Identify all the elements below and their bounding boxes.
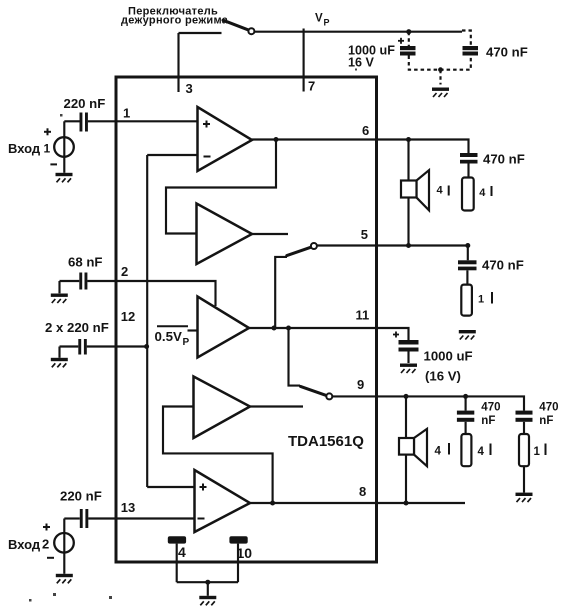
svg-text:220 nF: 220 nF: [60, 489, 102, 504]
svg-text:13: 13: [121, 500, 135, 515]
svg-text:Вход: Вход: [8, 537, 41, 552]
svg-text:P: P: [183, 337, 190, 348]
svg-text:470: 470: [481, 401, 500, 413]
svg-text:0.5V: 0.5V: [155, 329, 182, 344]
svg-text:1: 1: [123, 106, 130, 121]
svg-text:2: 2: [121, 264, 128, 279]
svg-text:1000 uF: 1000 uF: [424, 349, 473, 364]
svg-text:470 nF: 470 nF: [486, 45, 528, 60]
svg-text:nF: nF: [481, 415, 495, 427]
svg-text:2: 2: [42, 537, 49, 552]
svg-text:9: 9: [357, 377, 364, 392]
svg-text:470: 470: [539, 401, 558, 413]
svg-text:16 V: 16 V: [348, 56, 375, 70]
svg-text:V: V: [315, 12, 323, 24]
svg-text:6: 6: [362, 123, 369, 138]
svg-text:4: 4: [478, 446, 485, 458]
svg-text:12: 12: [121, 309, 135, 324]
svg-text:1: 1: [44, 142, 51, 156]
svg-text:470 nF: 470 nF: [482, 258, 524, 273]
svg-text:5: 5: [361, 227, 368, 242]
svg-text:4: 4: [479, 187, 486, 199]
svg-text:11: 11: [356, 308, 370, 323]
svg-text:68 nF: 68 nF: [68, 255, 102, 270]
svg-text:3: 3: [186, 81, 193, 96]
svg-text:1: 1: [478, 294, 484, 306]
svg-text:1: 1: [534, 446, 541, 458]
svg-text:220 nF: 220 nF: [64, 96, 106, 111]
svg-text:Вход: Вход: [8, 141, 41, 156]
svg-text:P: P: [324, 17, 330, 27]
svg-text:4: 4: [178, 544, 186, 560]
svg-text:7: 7: [308, 78, 315, 93]
svg-text:8: 8: [359, 484, 366, 499]
svg-text:(16 V): (16 V): [425, 369, 461, 384]
svg-text:nF: nF: [539, 415, 553, 427]
svg-text:10: 10: [237, 545, 253, 561]
svg-text:470 nF: 470 nF: [483, 152, 525, 167]
svg-text:дежурного режима: дежурного режима: [121, 14, 229, 26]
svg-text:4: 4: [435, 446, 442, 458]
svg-text:TDA1561Q: TDA1561Q: [288, 433, 364, 450]
svg-text:4: 4: [437, 185, 444, 197]
svg-text:2 x 220 nF: 2 x 220 nF: [45, 320, 109, 335]
